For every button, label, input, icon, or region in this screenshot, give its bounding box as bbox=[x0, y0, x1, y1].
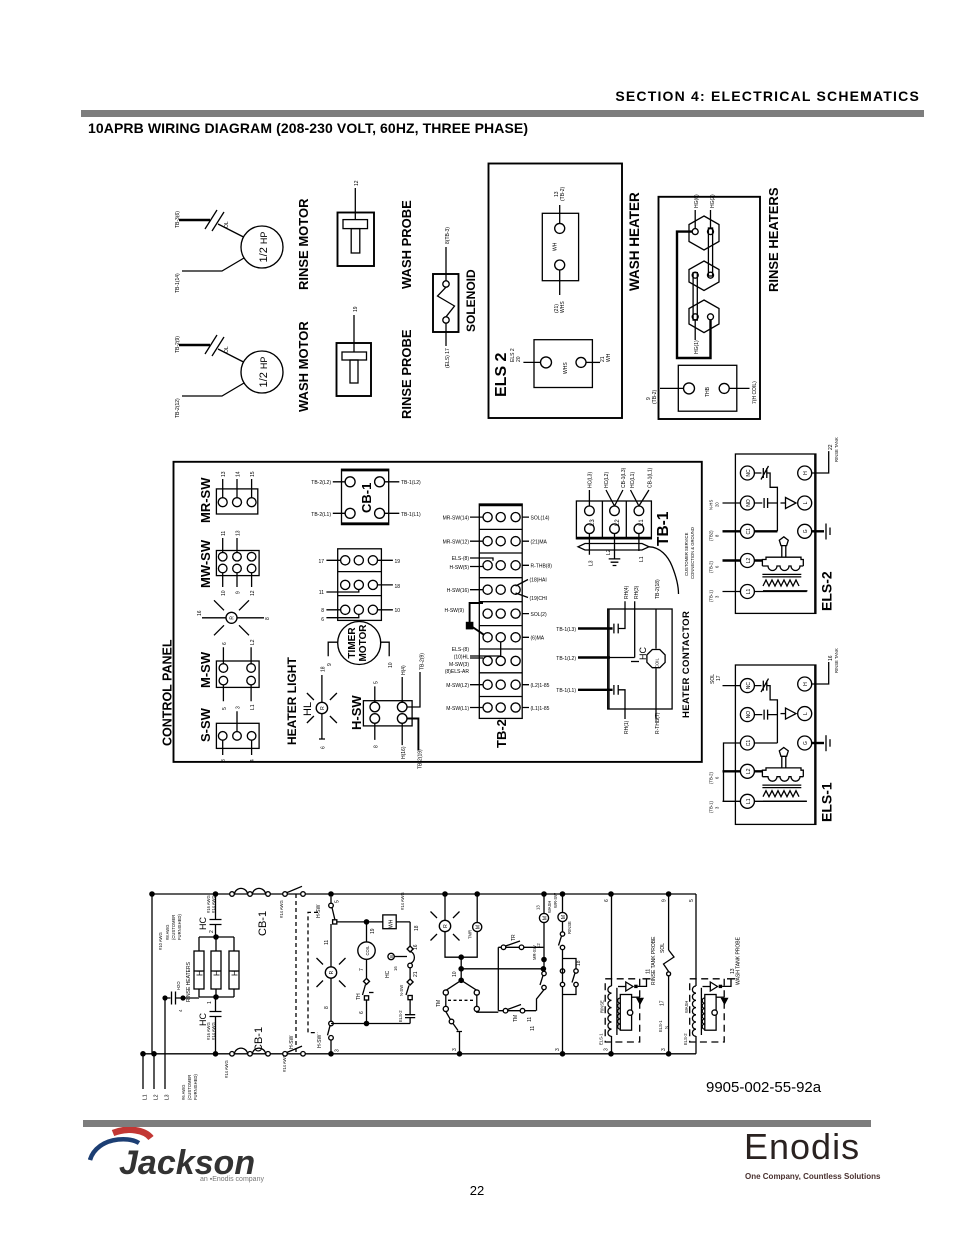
svg-text:SOL(14): SOL(14) bbox=[531, 516, 550, 522]
svg-text:HC: HC bbox=[385, 970, 391, 978]
svg-text:(TB-2): (TB-2) bbox=[709, 772, 714, 784]
svg-text:8: 8 bbox=[265, 617, 271, 620]
svg-text:(6)MA: (6)MA bbox=[531, 636, 545, 642]
svg-text:H-SW: H-SW bbox=[289, 1035, 295, 1049]
svg-text:3: 3 bbox=[661, 1048, 667, 1051]
svg-text:ELS 2: ELS 2 bbox=[493, 352, 510, 397]
svg-text:TB-1(14): TB-1(14) bbox=[175, 273, 181, 293]
svg-text:L3: L3 bbox=[165, 1094, 171, 1100]
svg-text:L: L bbox=[803, 501, 809, 504]
svg-text:8: 8 bbox=[324, 1006, 330, 1009]
svg-text:6: 6 bbox=[715, 565, 720, 568]
svg-text:THB: THB bbox=[705, 386, 711, 397]
svg-text:RINSE: RINSE bbox=[600, 1000, 605, 1013]
svg-text:N: N bbox=[664, 1026, 669, 1029]
svg-text:TB-2(9): TB-2(9) bbox=[175, 336, 181, 353]
svg-text:8: 8 bbox=[373, 745, 379, 748]
svg-text:C1: C1 bbox=[746, 528, 752, 535]
svg-text:ELS-(8): ELS-(8) bbox=[452, 647, 470, 653]
svg-text:20: 20 bbox=[516, 356, 522, 362]
svg-text:15: 15 bbox=[250, 471, 256, 477]
svg-text:H2O: H2O bbox=[176, 981, 181, 990]
svg-text:TM: TM bbox=[513, 1015, 519, 1022]
svg-text:M: M bbox=[542, 916, 548, 920]
svg-text:RINSE MOTOR: RINSE MOTOR bbox=[296, 198, 311, 290]
svg-text:10: 10 bbox=[221, 590, 227, 596]
svg-text:RINSE HEATERS: RINSE HEATERS bbox=[766, 187, 781, 292]
svg-text:ELS-2: ELS-2 bbox=[683, 1033, 688, 1045]
svg-text:H-SW(9): H-SW(9) bbox=[445, 608, 465, 614]
svg-text:CB-1(L1): CB-1(L1) bbox=[648, 467, 654, 488]
svg-text:R-THB(8): R-THB(8) bbox=[531, 564, 553, 570]
svg-text:FURNISHED): FURNISHED) bbox=[193, 1074, 198, 1100]
svg-text:ELS-2: ELS-2 bbox=[398, 1010, 403, 1022]
svg-text:(TB-2): (TB-2) bbox=[709, 561, 714, 573]
svg-text:ELS-(8): ELS-(8) bbox=[452, 556, 470, 562]
svg-text:TB-1(L2): TB-1(L2) bbox=[401, 480, 421, 486]
svg-text:HC(L1): HC(L1) bbox=[630, 472, 636, 488]
svg-text:WASH HEATER: WASH HEATER bbox=[627, 192, 642, 291]
svg-text:B: B bbox=[389, 955, 394, 958]
svg-text:RH(3): RH(3) bbox=[634, 585, 640, 599]
svg-text:R: R bbox=[320, 706, 326, 710]
svg-text:14: 14 bbox=[236, 471, 242, 477]
svg-text:5: 5 bbox=[689, 899, 695, 902]
svg-text:TB-2(L2): TB-2(L2) bbox=[311, 480, 331, 486]
svg-text:11: 11 bbox=[221, 531, 227, 536]
svg-text:TB-2(L1): TB-2(L1) bbox=[311, 512, 331, 518]
svg-text:2: 2 bbox=[209, 930, 215, 933]
svg-text:MR-SW(14): MR-SW(14) bbox=[443, 516, 470, 522]
svg-text:TB-3(6): TB-3(6) bbox=[175, 211, 181, 228]
svg-text:#14 AWG: #14 AWG bbox=[400, 892, 405, 910]
svg-text:HC: HC bbox=[198, 917, 208, 930]
svg-text:3: 3 bbox=[555, 1048, 561, 1051]
svg-text:RH(4): RH(4) bbox=[624, 585, 630, 599]
svg-text:11: 11 bbox=[527, 1017, 533, 1022]
svg-text:L2: L2 bbox=[154, 1094, 160, 1100]
svg-text:NC: NC bbox=[746, 469, 752, 477]
svg-text:H(16): H(16) bbox=[401, 746, 407, 759]
svg-text:(CUSTOMER: (CUSTOMER bbox=[187, 1075, 192, 1100]
svg-text:TH: TH bbox=[356, 993, 362, 1000]
svg-text:13: 13 bbox=[236, 530, 242, 536]
svg-text:M: M bbox=[561, 915, 567, 919]
svg-text:COIL: COIL bbox=[655, 658, 660, 668]
svg-text:CB-1: CB-1 bbox=[359, 483, 374, 513]
svg-text:WR-SW: WR-SW bbox=[553, 893, 558, 908]
svg-text:TB-2(9): TB-2(9) bbox=[420, 653, 426, 670]
svg-text:M: M bbox=[476, 925, 482, 929]
svg-text:20: 20 bbox=[715, 502, 720, 507]
svg-text:(19)CHI: (19)CHI bbox=[530, 596, 548, 602]
svg-text:12: 12 bbox=[354, 180, 360, 186]
svg-text:MOTOR: MOTOR bbox=[358, 624, 369, 662]
svg-text:WH: WH bbox=[389, 919, 395, 928]
svg-text:19: 19 bbox=[395, 559, 401, 565]
svg-text:L2: L2 bbox=[250, 639, 256, 645]
svg-text:5: 5 bbox=[222, 707, 228, 710]
svg-text:(TB-1): (TB-1) bbox=[709, 590, 714, 602]
svg-text:L2: L2 bbox=[746, 768, 752, 774]
svg-text:M-SW: M-SW bbox=[198, 651, 213, 688]
svg-text:COIL: COIL bbox=[365, 945, 370, 955]
svg-text:RINSE TANK PROBE: RINSE TANK PROBE bbox=[651, 936, 657, 985]
svg-text:H: H bbox=[803, 682, 809, 686]
svg-text:R-THB(7): R-THB(7) bbox=[655, 712, 661, 734]
svg-text:11: 11 bbox=[324, 940, 330, 945]
svg-text:3: 3 bbox=[236, 706, 242, 709]
svg-text:H-SW: H-SW bbox=[316, 904, 322, 918]
svg-text:19: 19 bbox=[353, 306, 359, 312]
svg-text:8: 8 bbox=[715, 534, 720, 537]
svg-text:6: 6 bbox=[321, 746, 327, 749]
svg-text:(L2)1-85: (L2)1-85 bbox=[531, 683, 550, 689]
svg-text:8: 8 bbox=[221, 759, 227, 762]
svg-text:L1: L1 bbox=[143, 1094, 149, 1100]
svg-text:H(4): H(4) bbox=[401, 665, 407, 675]
svg-text:TB-2(18): TB-2(18) bbox=[655, 579, 661, 599]
svg-text:3: 3 bbox=[604, 1048, 610, 1051]
svg-text:#14 AWG: #14 AWG bbox=[279, 900, 284, 918]
svg-text:HC(L2): HC(L2) bbox=[604, 472, 610, 488]
svg-text:HG(6): HG(6) bbox=[694, 194, 700, 208]
svg-text:WASH PROBE: WASH PROBE bbox=[399, 200, 414, 289]
svg-text:CB-1: CB-1 bbox=[253, 1027, 265, 1052]
svg-text:(L1)1-85: (L1)1-85 bbox=[531, 706, 550, 712]
svg-text:NC: NC bbox=[746, 682, 752, 690]
svg-text:11: 11 bbox=[319, 590, 324, 596]
svg-text:(ELS) 17: (ELS) 17 bbox=[445, 348, 451, 368]
svg-text:CUSTOMER SERVICE: CUSTOMER SERVICE bbox=[684, 532, 689, 576]
svg-text:9: 9 bbox=[662, 899, 668, 902]
svg-text:1: 1 bbox=[207, 1001, 213, 1004]
svg-text:10: 10 bbox=[395, 608, 401, 614]
svg-text:CB-1(L3): CB-1(L3) bbox=[621, 467, 627, 488]
svg-text:N-SW: N-SW bbox=[399, 985, 404, 996]
svg-text:S-SW: S-SW bbox=[198, 707, 213, 742]
svg-text:1/2 HP: 1/2 HP bbox=[258, 232, 270, 263]
svg-text:(8)ELS-AR: (8)ELS-AR bbox=[445, 669, 470, 675]
svg-text:H-SW: H-SW bbox=[349, 695, 364, 730]
svg-text:(TB-1): (TB-1) bbox=[709, 801, 714, 813]
svg-text:ELS-1: ELS-1 bbox=[819, 782, 835, 822]
svg-text:ELS-1: ELS-1 bbox=[658, 1020, 663, 1032]
svg-text:H: H bbox=[803, 471, 809, 475]
svg-text:H: H bbox=[231, 970, 240, 976]
svg-text:HL: HL bbox=[302, 702, 314, 716]
svg-text:16: 16 bbox=[393, 966, 398, 971]
svg-text:5: 5 bbox=[335, 900, 341, 903]
svg-text:#14 AWG: #14 AWG bbox=[224, 1060, 229, 1078]
svg-text:TB-2(12): TB-2(12) bbox=[175, 398, 181, 418]
svg-text:WASH: WASH bbox=[684, 1001, 689, 1013]
svg-text:13: 13 bbox=[536, 905, 541, 910]
svg-text:ELS-2: ELS-2 bbox=[819, 571, 835, 611]
svg-text:1/2 HP: 1/2 HP bbox=[258, 357, 270, 388]
svg-text:17: 17 bbox=[660, 1000, 666, 1006]
svg-text:8: 8 bbox=[321, 608, 324, 614]
svg-text:RINSE PROBE: RINSE PROBE bbox=[399, 329, 414, 419]
svg-text:CONNECTION & GROUND: CONNECTION & GROUND bbox=[690, 527, 695, 579]
svg-text:CB-1: CB-1 bbox=[257, 911, 269, 936]
svg-text:HG(2): HG(2) bbox=[710, 194, 716, 208]
svg-text:6: 6 bbox=[222, 642, 228, 645]
svg-text:G: G bbox=[803, 529, 809, 533]
svg-text:N-HS: N-HS bbox=[709, 500, 714, 510]
svg-text:RINSE TANK: RINSE TANK bbox=[834, 648, 839, 673]
svg-text:TB-1(L1): TB-1(L1) bbox=[401, 512, 421, 518]
svg-text:#10 AWG: #10 AWG bbox=[158, 932, 163, 950]
svg-text:#14 AWG: #14 AWG bbox=[282, 1054, 287, 1072]
svg-text:H-SW: H-SW bbox=[317, 1034, 323, 1048]
svg-text:TB-1(L1): TB-1(L1) bbox=[556, 688, 576, 694]
svg-text:RH(1): RH(1) bbox=[624, 720, 630, 734]
svg-text:18: 18 bbox=[414, 925, 420, 931]
svg-text:7(H COIL): 7(H COIL) bbox=[752, 381, 758, 404]
svg-text:5: 5 bbox=[373, 681, 379, 684]
svg-text:RINSE TANK: RINSE TANK bbox=[834, 437, 839, 462]
svg-text:NO: NO bbox=[746, 499, 752, 507]
svg-text:3: 3 bbox=[715, 806, 720, 809]
svg-text:17: 17 bbox=[318, 559, 324, 565]
svg-text:10: 10 bbox=[452, 971, 458, 977]
svg-text:L1: L1 bbox=[746, 798, 752, 804]
svg-text:WH: WH bbox=[553, 242, 559, 251]
svg-text:#14 AWG: #14 AWG bbox=[211, 895, 216, 913]
svg-text:WASH TANK PROBE: WASH TANK PROBE bbox=[736, 936, 742, 985]
svg-text:TB-2: TB-2 bbox=[494, 719, 509, 748]
svg-text:L3: L3 bbox=[590, 519, 596, 526]
svg-text:18: 18 bbox=[321, 666, 327, 672]
svg-text:L2: L2 bbox=[615, 519, 621, 526]
svg-text:G: G bbox=[803, 741, 809, 745]
svg-text:RINSE: RINSE bbox=[567, 921, 572, 934]
svg-text:H: H bbox=[196, 970, 205, 976]
svg-text:HEATER CONTACTOR: HEATER CONTACTOR bbox=[681, 611, 692, 718]
svg-text:C1: C1 bbox=[746, 740, 752, 747]
svg-text:H-SW(5): H-SW(5) bbox=[450, 565, 470, 571]
svg-text:H: H bbox=[213, 970, 222, 976]
svg-text:WHS: WHS bbox=[563, 362, 569, 374]
svg-text:4: 4 bbox=[178, 1009, 183, 1012]
svg-text:#8 AWG: #8 AWG bbox=[165, 925, 170, 940]
svg-text:SOLENOID: SOLENOID bbox=[464, 269, 478, 332]
svg-text:(18)HAI: (18)HAI bbox=[530, 578, 547, 584]
svg-text:(TB-2): (TB-2) bbox=[652, 390, 658, 405]
svg-text:9: 9 bbox=[327, 663, 333, 666]
svg-text:TMR: TMR bbox=[468, 930, 473, 939]
svg-text:R: R bbox=[230, 616, 236, 620]
svg-text:13: 13 bbox=[221, 471, 227, 477]
svg-text:H-SW(16): H-SW(16) bbox=[447, 588, 470, 594]
svg-text:L2: L2 bbox=[746, 558, 752, 564]
svg-text:L: L bbox=[803, 712, 809, 715]
svg-text:R: R bbox=[329, 970, 335, 974]
svg-text:TIMER: TIMER bbox=[347, 627, 358, 659]
svg-text:SOL: SOL bbox=[660, 943, 666, 953]
svg-text:L3: L3 bbox=[589, 560, 595, 566]
svg-text:FURNISHED): FURNISHED) bbox=[177, 914, 182, 940]
svg-text:MR-SW: MR-SW bbox=[198, 477, 213, 523]
svg-text:7: 7 bbox=[359, 968, 365, 971]
svg-text:3: 3 bbox=[715, 595, 720, 598]
svg-text:#6 AWG: #6 AWG bbox=[181, 1085, 186, 1100]
svg-text:11: 11 bbox=[530, 1026, 536, 1031]
svg-text:9: 9 bbox=[236, 591, 242, 594]
svg-text:WHS: WHS bbox=[560, 301, 566, 313]
svg-text:TB-1(L3): TB-1(L3) bbox=[556, 627, 576, 633]
svg-text:ELS-1: ELS-1 bbox=[599, 1033, 604, 1045]
svg-text:MW-SW: MW-SW bbox=[198, 539, 213, 588]
svg-text:L1: L1 bbox=[639, 556, 645, 562]
svg-text:RINSE HEATERS: RINSE HEATERS bbox=[186, 961, 192, 1002]
svg-text:(TB2): (TB2) bbox=[709, 530, 714, 541]
svg-text:6: 6 bbox=[321, 617, 324, 623]
svg-text:WASH MOTOR: WASH MOTOR bbox=[296, 321, 311, 412]
svg-text:L1: L1 bbox=[250, 704, 256, 710]
svg-text:10: 10 bbox=[388, 662, 394, 668]
svg-text:TB-1(L2): TB-1(L2) bbox=[556, 656, 576, 662]
svg-text:16: 16 bbox=[197, 610, 203, 616]
svg-text:L1: L1 bbox=[639, 519, 645, 526]
svg-text:3: 3 bbox=[452, 1048, 458, 1051]
svg-text:19: 19 bbox=[370, 928, 376, 934]
svg-text:(CUSTOMER: (CUSTOMER bbox=[171, 915, 176, 940]
svg-text:M-SW(L1): M-SW(L1) bbox=[446, 706, 469, 712]
svg-text:MR-SW(12): MR-SW(12) bbox=[443, 540, 470, 546]
svg-text:(TB-2): (TB-2) bbox=[560, 187, 566, 202]
svg-text:#14 AWG: #14 AWG bbox=[211, 1022, 216, 1040]
svg-text:18: 18 bbox=[395, 584, 401, 590]
svg-text:TM: TM bbox=[436, 1000, 442, 1007]
svg-text:(10)HL: (10)HL bbox=[454, 655, 470, 661]
svg-text:TB-1: TB-1 bbox=[655, 511, 672, 546]
svg-text:NO: NO bbox=[746, 711, 752, 719]
svg-text:TR: TR bbox=[511, 934, 517, 941]
svg-text:R: R bbox=[443, 924, 449, 928]
svg-text:18: 18 bbox=[576, 960, 582, 966]
svg-text:M-SW(L2): M-SW(L2) bbox=[446, 683, 469, 689]
svg-text:6: 6 bbox=[604, 899, 610, 902]
svg-text:12: 12 bbox=[250, 590, 256, 596]
svg-text:16: 16 bbox=[413, 944, 419, 950]
svg-text:TB-2(19): TB-2(19) bbox=[418, 749, 424, 769]
svg-text:8(TB-3): 8(TB-3) bbox=[445, 227, 451, 244]
svg-text:6: 6 bbox=[359, 1011, 365, 1014]
svg-text:WASH: WASH bbox=[547, 901, 552, 913]
svg-text:HG(1): HG(1) bbox=[694, 340, 700, 354]
svg-text:21: 21 bbox=[413, 971, 419, 977]
svg-text:HC(L3): HC(L3) bbox=[588, 472, 594, 488]
svg-text:M-SW(3): M-SW(3) bbox=[449, 662, 469, 668]
svg-text:WH: WH bbox=[606, 353, 612, 362]
svg-text:17: 17 bbox=[716, 675, 722, 681]
svg-text:CONTROL PANEL: CONTROL PANEL bbox=[161, 639, 175, 746]
svg-text:MR-SW: MR-SW bbox=[532, 945, 537, 960]
svg-text:(21)MA: (21)MA bbox=[531, 540, 548, 546]
svg-text:HEATER LIGHT: HEATER LIGHT bbox=[285, 657, 299, 745]
svg-text:4: 4 bbox=[250, 759, 256, 762]
svg-text:6: 6 bbox=[715, 776, 720, 779]
svg-text:L1: L1 bbox=[746, 589, 752, 595]
svg-text:3: 3 bbox=[335, 1049, 341, 1052]
svg-text:SOL(2): SOL(2) bbox=[531, 612, 547, 618]
